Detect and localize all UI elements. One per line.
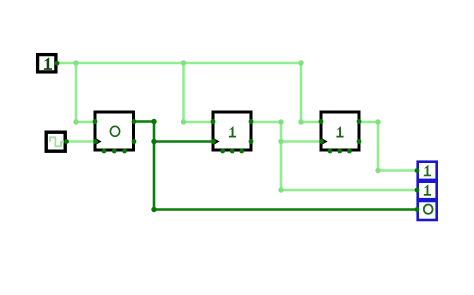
wire: branch down to FF2 T: [184, 63, 213, 122]
node: FF3 pins: [319, 119, 362, 153]
node: light-green wire corners/junctions: [73, 60, 380, 192]
wire: branch down to FF3 T: [301, 63, 321, 122]
output pin OUT2 (value 1): [418, 182, 437, 200]
output pin OUT1 (value 1): [418, 162, 437, 180]
T flip-flop FF3 (value 1): [320, 112, 359, 150]
FF1 clock notch: [94, 137, 102, 145]
node: input pin connection: [55, 61, 60, 66]
node: dark-green wire corners/junctions of FF1 Q net: [151, 119, 156, 212]
clock CLK1: [46, 132, 65, 151]
wire: FF2 Q to FF3 clk and OUT2: [251, 122, 417, 190]
FF2 clock notch: [212, 137, 220, 145]
node: clock connection: [64, 139, 69, 144]
output pin OUT3 (value 0): [418, 201, 437, 220]
node: output pin connections: [415, 168, 420, 212]
wire: branch down to FF1 T: [76, 63, 95, 122]
T flip-flop FF1 (value 0): [94, 112, 134, 150]
T flip-flop FF2 (value 1): [212, 112, 251, 150]
wire: input net horizontal top: [58, 63, 417, 190]
clock waveform symbol: [50, 137, 64, 146]
input pin IN1 value 1: [38, 55, 56, 72]
node: FF2 pins: [211, 119, 254, 153]
wire: FF1 Q to FF2 clk: [154, 140, 212, 143]
wire: clock to FF1 clk: [67, 140, 95, 143]
wire: FF1 Q net (value 0, dark): [134, 122, 417, 210]
wire: FF3 Q to OUT1: [359, 122, 417, 171]
node: FF1 pins: [93, 119, 137, 153]
FF3 clock notch: [320, 137, 328, 145]
